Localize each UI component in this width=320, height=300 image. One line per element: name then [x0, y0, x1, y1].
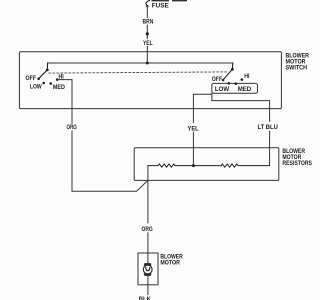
contact dot HI (right) [241, 78, 244, 81]
label BLOWER MOTOR [160, 253, 183, 266]
label BLOWER MOTOR RESISTORS [282, 148, 312, 167]
wire HI contact to ORG drop [57, 80, 72, 124]
fuse bottom terminal dot [146, 5, 148, 7]
svg-text:ORG: ORG [67, 124, 77, 131]
svg-text:LOW: LOW [30, 84, 42, 91]
contact dot MED (right) [235, 82, 238, 85]
contact dot OFF (left) [37, 78, 40, 81]
contact dot LOW (left) [42, 82, 45, 85]
junction dot on bus at YEL feed [146, 62, 149, 65]
blower motor connector box [138, 253, 158, 285]
fuse label line 1 (cut off at top edge) [152, 0, 188, 1]
wire ORG down to motor [147, 233, 149, 263]
fuse F (symbol, top of page) [146, 1, 150, 7]
svg-text:YEL: YEL [143, 40, 153, 47]
contact dot OFF (right) [222, 79, 225, 82]
svg-text:LT BLU: LT BLU [258, 124, 279, 131]
svg-text:LOW: LOW [215, 86, 229, 93]
svg-text:FUSE: FUSE [152, 2, 169, 9]
label BLOWER MOTOR SWITCH [286, 53, 310, 72]
contact dot HI (left) [56, 78, 59, 81]
contact dot LOW (right) [228, 82, 231, 85]
switch arm (left section) [39, 63, 48, 79]
wire from fuse down (BRN segment) [146, 7, 148, 18]
wire YEL down into resistor box [192, 132, 194, 165]
wire motor to ground (BLK) [147, 276, 149, 294]
contact dot arm top (right) [231, 68, 234, 71]
motor M1 symbol [143, 263, 152, 275]
wire below splice [146, 36, 148, 39]
wire switch supply bus [48, 62, 233, 64]
splice junction dot [146, 32, 149, 35]
blower motor resistors box [134, 148, 279, 181]
svg-text:OFF: OFF [26, 75, 37, 82]
wire LT BLU tap from LOW/MED box [212, 93, 270, 121]
wire ORG down to corner and over to resistor junction [72, 131, 148, 191]
resistor R1 (left zigzag) [148, 164, 194, 167]
svg-text:MED: MED [238, 86, 252, 93]
wire YEL feed into switch [146, 47, 148, 63]
wire YEL tap from LOW/MED box [193, 94, 211, 122]
svg-text:HI: HI [244, 73, 249, 80]
resistor R2 (right zigzag) [193, 164, 269, 167]
svg-text:YEL: YEL [188, 126, 199, 133]
svg-text:RESISTORS: RESISTORS [282, 160, 312, 167]
svg-text:BLK: BLK [139, 296, 152, 300]
LOW MED resistor-tap box [212, 83, 258, 93]
svg-text:BRN: BRN [143, 19, 154, 26]
wire LT BLU down into resistor box [269, 131, 271, 165]
blower motor switch box [19, 52, 281, 109]
switch arm (right section) [223, 63, 233, 80]
svg-text:SWITCH: SWITCH [286, 64, 308, 71]
contact dot MED (left) [49, 82, 52, 85]
wire below BRN label [146, 25, 148, 32]
svg-text:OFF: OFF [212, 76, 222, 83]
dashed mechanical link between switch sections [49, 72, 228, 73]
contact dot arm top (left) [46, 69, 49, 72]
wire resistor chain left leg to motor feed [147, 166, 149, 223]
svg-text:MED: MED [53, 84, 65, 91]
svg-text:MOTOR: MOTOR [160, 260, 180, 267]
svg-text:ORG: ORG [142, 226, 153, 233]
junction dot YEL on resistor chain [192, 164, 195, 167]
